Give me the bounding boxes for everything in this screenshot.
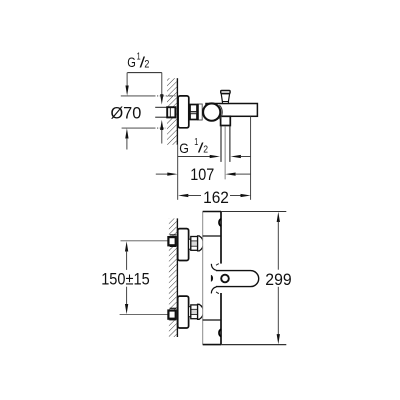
supply pipe / extension line 1 xyxy=(121,240,168,242)
wall face line (bottom view) xyxy=(176,218,178,337)
wall union nut 2 xyxy=(168,308,176,320)
dimension 162 xyxy=(178,194,251,197)
spout centerline extension xyxy=(224,126,226,179)
supply pipe / extension line 2 xyxy=(120,313,168,315)
svg-text:2: 2 xyxy=(203,145,208,156)
handle base fillet bottom xyxy=(211,287,216,294)
knob skirt arc right of circle xyxy=(219,105,222,119)
neck 2 xyxy=(189,307,191,317)
inlet cone 1 xyxy=(198,236,204,251)
diverter knob (top view) xyxy=(221,91,230,104)
G 1/2 lower leader arrow to spout left xyxy=(178,155,220,158)
wall (top view, hatched) xyxy=(167,78,177,145)
supply pipe stub upper (top view) xyxy=(155,106,167,108)
outlet edge (dark ellipse, bottom) xyxy=(219,329,221,337)
G 1/2 top label xyxy=(127,52,149,72)
diverter knob edge (dark ellipse, top) xyxy=(219,219,221,227)
handle button circle xyxy=(221,275,229,283)
union hex nut 2 xyxy=(191,305,198,319)
fillet tick top xyxy=(216,264,219,266)
G 1/2 lower label xyxy=(179,137,208,156)
neck 1 xyxy=(189,239,191,249)
temperature knob circle (top view) xyxy=(203,103,220,120)
svg-text:G: G xyxy=(179,141,189,156)
thermostat body (side view) xyxy=(203,212,221,345)
svg-text:299: 299 xyxy=(265,270,291,289)
lower G1/2 pointer leg with arrow to supply fitting xyxy=(160,120,163,144)
wall face line (top view) xyxy=(176,78,178,145)
concealed fitting square behind wall xyxy=(167,107,175,117)
faucet body (top view) xyxy=(206,104,257,117)
escutcheon flange 2 (side view) xyxy=(178,296,189,328)
Ø70 lower dimension arrow xyxy=(125,128,128,149)
svg-text:2: 2 xyxy=(144,59,149,71)
dimension 150±15 vertical line with arrows xyxy=(125,241,128,314)
escutcheon flange 1 (side view) xyxy=(178,229,189,261)
spout connector block xyxy=(221,116,231,125)
svg-text:107: 107 xyxy=(190,165,214,184)
union hex nut 1 xyxy=(191,237,198,251)
spout tube left line xyxy=(220,126,222,162)
svg-text:162: 162 xyxy=(203,188,229,207)
right extension line from body xyxy=(250,116,252,200)
handle base fillet top xyxy=(211,264,216,271)
supply pipe stub lower (top view) xyxy=(155,116,167,118)
lever handle (stadium shape) xyxy=(216,271,259,287)
cartridge ring piece xyxy=(198,104,203,120)
wall face extension line down xyxy=(177,145,179,200)
black grip bar on body xyxy=(211,275,213,282)
G 1/2 lower right arrow to spout right xyxy=(231,155,251,158)
dimension 299 vertical line with arrows xyxy=(277,212,280,345)
299 bottom extension line xyxy=(221,344,286,346)
leader left leg with arrow to flange top xyxy=(125,73,128,96)
union nut (top view) xyxy=(190,105,197,120)
wall (bottom view, hatched) xyxy=(169,218,177,337)
inlet cone 2 xyxy=(198,304,204,319)
escutcheon flange (top view) xyxy=(178,96,189,128)
svg-text:150±15: 150±15 xyxy=(101,269,150,288)
spout tube right line xyxy=(229,126,231,162)
dimension 107 xyxy=(156,172,251,175)
G 1/2 top leader underline xyxy=(127,72,162,74)
svg-text:Ø70: Ø70 xyxy=(111,104,142,123)
fillet tick bottom xyxy=(216,292,219,294)
wall union nut 1 xyxy=(168,235,176,247)
Ø70 upper extension line xyxy=(121,95,177,97)
Ø70 lower extension line xyxy=(122,127,166,129)
leader right leg with arrow to supply fitting xyxy=(160,73,163,105)
299 top extension line xyxy=(221,211,286,213)
svg-text:G: G xyxy=(127,55,136,71)
